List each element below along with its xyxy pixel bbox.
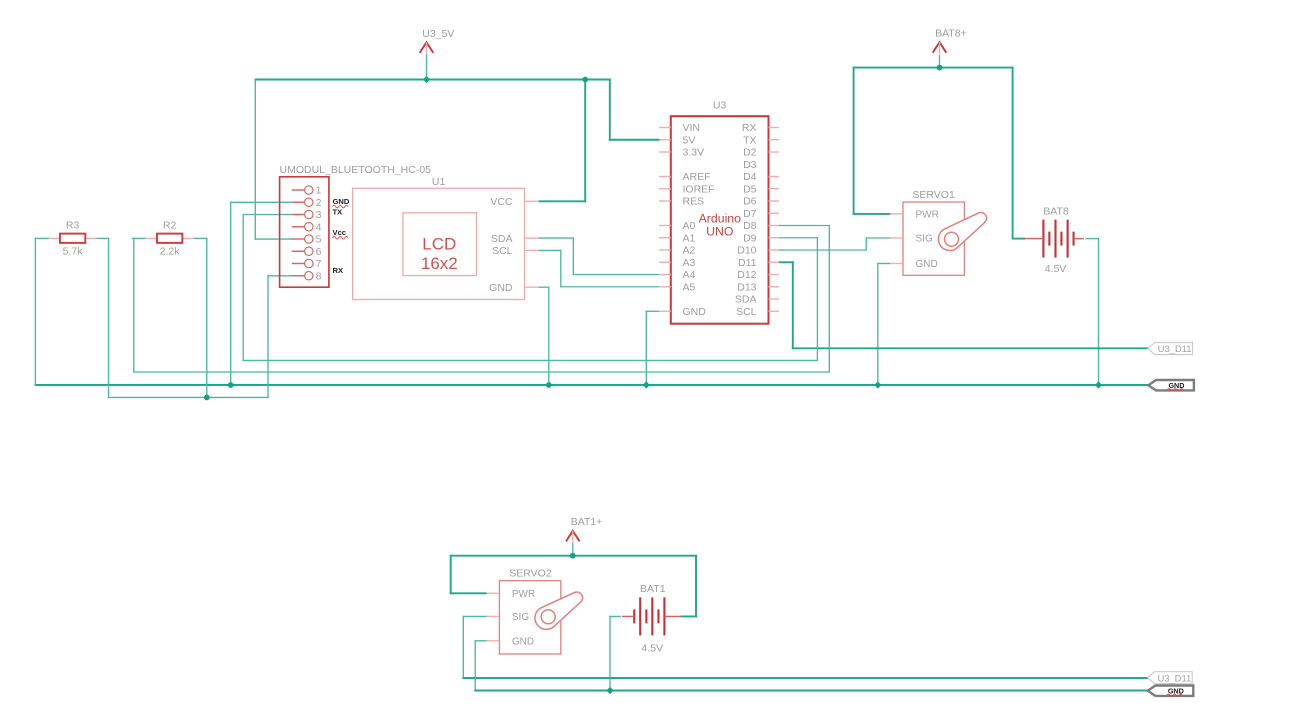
svg-text:SDA: SDA — [735, 294, 757, 306]
pin label GND — [333, 197, 350, 208]
svg-text:AREF: AREF — [683, 171, 711, 183]
svg-text:IOREF: IOREF — [683, 183, 715, 195]
wire U3 D11 to flag — [779, 262, 1148, 348]
svg-text:1: 1 — [316, 185, 322, 197]
svg-text:LCD: LCD — [422, 235, 456, 254]
IC U1 LCD 16x2 — [353, 176, 539, 299]
svg-text:SDA: SDA — [491, 233, 513, 245]
svg-text:VCC: VCC — [490, 196, 513, 208]
svg-text:A1: A1 — [683, 232, 696, 244]
junction BAT1+ rail — [570, 553, 576, 559]
wire BAT1+ to BAT1 plus terminal — [681, 556, 696, 617]
svg-text:6: 6 — [316, 246, 322, 258]
wire BAT8+ stem — [939, 56, 941, 68]
svg-text:D7: D7 — [743, 208, 757, 220]
svg-text:D2: D2 — [743, 147, 757, 159]
svg-text:D12: D12 — [737, 269, 756, 281]
pin label Vcc — [333, 228, 349, 239]
wire U3 D9 to HC-05 pin3 TX — [243, 215, 817, 361]
svg-text:3: 3 — [316, 209, 322, 221]
svg-text:4: 4 — [316, 221, 322, 233]
net flag U3_D11 — [1148, 343, 1193, 355]
resistor R2 — [132, 220, 205, 258]
connector UMODUL_BLUETOOTH_HC-05 — [280, 164, 432, 287]
svg-text:16x2: 16x2 — [421, 254, 458, 273]
junction GND bus x1098 — [1095, 381, 1102, 388]
svg-text:GND: GND — [512, 636, 534, 647]
net flag U3_D11 — [1148, 672, 1193, 684]
svg-text:SERVO2: SERVO2 — [509, 568, 552, 580]
svg-text:RX: RX — [333, 266, 344, 275]
wire SERVO2 SIG to flag U3_D11 — [463, 616, 1147, 678]
wire HC-05 pin2 GND to bus — [231, 202, 292, 385]
pin label TX — [333, 207, 343, 216]
servo SERVO2 — [486, 568, 582, 655]
svg-text:BAT1+: BAT1+ — [571, 516, 603, 528]
svg-text:UNO: UNO — [706, 225, 733, 239]
junction node x207 — [204, 395, 210, 401]
junction GND bus x646 — [643, 381, 650, 388]
svg-text:A2: A2 — [683, 245, 696, 257]
wire U3 D10 to SERVO1 SIG — [779, 238, 890, 250]
svg-text:D9: D9 — [743, 232, 757, 244]
battery BAT1 4.5V — [622, 583, 681, 655]
svg-text:PWR: PWR — [512, 589, 535, 600]
svg-text:D6: D6 — [743, 196, 757, 208]
pin label RX — [333, 266, 344, 275]
wire BAT8+ to SERVO1 PWR — [854, 68, 890, 214]
power flag BAT1+ — [566, 516, 602, 543]
svg-text:5.7k: 5.7k — [63, 246, 84, 258]
battery BAT8 4.5V — [1024, 206, 1084, 275]
svg-text:A5: A5 — [683, 281, 696, 293]
wire LCD SDA to U3 A4 — [539, 238, 659, 274]
svg-text:SERVO1: SERVO1 — [912, 189, 955, 201]
svg-text:U1: U1 — [432, 176, 446, 188]
wire U3_5V stem — [426, 55, 428, 80]
wire LCD SCL to U3 A5 — [539, 250, 659, 286]
svg-text:GND: GND — [489, 282, 513, 294]
svg-text:2.2k: 2.2k — [160, 246, 181, 258]
svg-text:D5: D5 — [743, 183, 757, 195]
wire GND bus — [35, 384, 1148, 386]
svg-text:BAT8+: BAT8+ — [935, 27, 967, 39]
svg-text:TX: TX — [743, 134, 756, 146]
svg-text:4.5V: 4.5V — [1045, 263, 1067, 275]
svg-text:D11: D11 — [738, 257, 757, 269]
svg-text:8: 8 — [316, 270, 322, 282]
wire R3 left to GND bus — [34, 238, 36, 385]
svg-text:PWR: PWR — [916, 210, 939, 221]
svg-text:RES: RES — [683, 196, 705, 208]
junction U3_5V rail — [423, 76, 430, 83]
svg-text:BAT8: BAT8 — [1043, 206, 1069, 218]
svg-text:A0: A0 — [683, 220, 696, 232]
svg-text:2: 2 — [316, 197, 322, 209]
servo SERVO1 — [890, 189, 987, 275]
wire rail to LCD VCC — [539, 80, 585, 202]
svg-text:7: 7 — [316, 258, 322, 270]
wire BAT1+ rail — [451, 555, 696, 557]
wire BAT8+ to BAT8 plus terminal — [1013, 68, 1025, 239]
resistor R3 — [35, 220, 108, 258]
svg-text:Vcc: Vcc — [333, 228, 347, 237]
wire BAT1+ stem — [572, 543, 574, 556]
svg-text:4.5V: 4.5V — [641, 643, 663, 655]
wire rail to HC-05 pin5 Vcc — [255, 80, 291, 240]
svg-text:D13: D13 — [737, 281, 756, 293]
svg-text:Arduino: Arduino — [699, 212, 742, 226]
svg-text:SIG: SIG — [916, 234, 933, 245]
wire BAT1+ to SERVO2 PWR — [451, 556, 486, 594]
svg-text:3.3V: 3.3V — [683, 147, 705, 159]
wire BAT8 minus to bus — [1086, 239, 1099, 385]
wire U3 GND to bus — [646, 311, 659, 385]
wire BAT8+ rail — [854, 67, 1013, 69]
svg-text:U3_D11: U3_D11 — [1157, 672, 1191, 683]
svg-text:A4: A4 — [683, 269, 696, 281]
svg-text:U3: U3 — [713, 100, 727, 112]
wire LCD GND to bus — [539, 287, 549, 385]
wire R3 right to HC-05 pin8 RX — [109, 238, 292, 397]
svg-text:R3: R3 — [66, 220, 80, 232]
wire R2 right to node — [206, 238, 208, 397]
wire BAT1 minus to GND line — [610, 616, 620, 690]
svg-text:R2: R2 — [163, 220, 177, 232]
wire rail to U3 5V pin — [610, 80, 659, 140]
junction GND bus x549 — [546, 382, 552, 388]
svg-text:SCL: SCL — [492, 245, 513, 257]
svg-text:GND: GND — [916, 259, 938, 270]
junction GND bus x230 — [228, 382, 234, 388]
net flag GND — [1148, 380, 1194, 391]
svg-text:VIN: VIN — [683, 122, 701, 134]
svg-text:GND: GND — [333, 197, 350, 206]
wire SERVO1 GND to bus — [878, 264, 890, 386]
power flag BAT8+ — [933, 27, 967, 54]
svg-text:D10: D10 — [737, 245, 756, 257]
svg-text:D3: D3 — [743, 159, 757, 171]
svg-text:5: 5 — [316, 234, 322, 246]
svg-text:BAT1: BAT1 — [640, 583, 666, 595]
net flag GND — [1148, 686, 1194, 697]
wire SERVO2 GND to flag GND — [475, 641, 1148, 691]
svg-text:SIG: SIG — [512, 612, 529, 623]
junction GND line x610 — [606, 687, 613, 694]
svg-text:U3_5V: U3_5V — [422, 28, 454, 40]
svg-text:TX: TX — [333, 207, 343, 216]
junction BAT8+ rail — [937, 65, 943, 71]
svg-text:D8: D8 — [743, 220, 757, 232]
IC U3 Arduino UNO — [659, 100, 779, 324]
svg-text:SCL: SCL — [736, 306, 757, 318]
svg-text:5V: 5V — [683, 134, 696, 146]
wire U3 D8 to R2 left — [134, 226, 830, 373]
svg-text:GND: GND — [683, 306, 707, 318]
junction rail x585 — [582, 77, 588, 83]
power flag U3_5V — [420, 28, 455, 55]
svg-text:RX: RX — [742, 122, 757, 134]
svg-text:A3: A3 — [683, 257, 696, 269]
svg-text:U3_D11: U3_D11 — [1158, 343, 1192, 354]
wire U3_5V rail — [255, 79, 610, 81]
junction GND bus x878 — [874, 381, 881, 388]
svg-text:UMODUL_BLUETOOTH_HC-05: UMODUL_BLUETOOTH_HC-05 — [280, 164, 432, 176]
svg-text:D4: D4 — [743, 171, 757, 183]
